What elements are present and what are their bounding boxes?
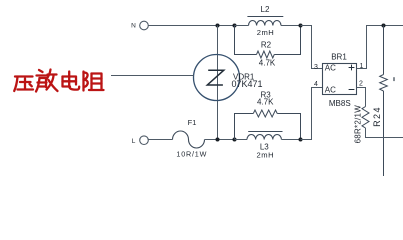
- svg-text:BR1: BR1: [331, 53, 347, 62]
- svg-text:2mH: 2mH: [257, 28, 275, 37]
- svg-text:R24: R24: [372, 106, 382, 127]
- svg-text:R2: R2: [261, 40, 272, 49]
- cropped label fragment at right edge: [393, 77, 395, 81]
- wire 68R resistor bottom to right edge: [366, 128, 403, 138]
- resistor 68R*2/1W (vertical): [362, 107, 369, 129]
- plus sign: [349, 65, 355, 71]
- node dot bottom-left of L3 section: [233, 138, 237, 142]
- wire from bottom rail to bridge pin 4: [301, 88, 323, 140]
- node dot top of varistor: [216, 24, 220, 28]
- minus sign: [349, 89, 355, 91]
- svg-text:2mH: 2mH: [257, 151, 275, 160]
- svg-text:68R*2/1W: 68R*2/1W: [354, 105, 363, 144]
- terminal N: [140, 21, 149, 30]
- wire L3 section right stub: [282, 139, 301, 141]
- fuse F1 (S-shaped double arc): [173, 131, 205, 148]
- svg-text:L2: L2: [261, 5, 270, 14]
- resistor R24 (vertical, right): [380, 26, 388, 177]
- wire L3 section left stub: [235, 139, 248, 141]
- svg-text:4.7K: 4.7K: [259, 59, 276, 68]
- svg-text:AC: AC: [325, 85, 336, 94]
- svg-text:2: 2: [359, 81, 363, 88]
- svg-text:10R/1W: 10R/1W: [176, 149, 207, 158]
- node dot bottom of varistor: [216, 138, 220, 142]
- inductor L3: [247, 132, 283, 140]
- node dot top-left of L2 section: [233, 24, 237, 28]
- wire L2 section left stub: [235, 25, 249, 27]
- 压: [15, 75, 33, 77]
- inductor L2: [247, 17, 283, 26]
- resistor R2 (parallel branch): [235, 26, 301, 59]
- 阻: [82, 72, 84, 91]
- wire from top rail to bridge pin 3: [301, 26, 323, 69]
- wire L2 section right stub: [281, 25, 301, 27]
- resistor R3 (parallel branch): [235, 110, 301, 140]
- varistor VDR1: [194, 55, 240, 101]
- 敏: [39, 70, 43, 72]
- wire top rail from N to L2 section: [148, 25, 234, 27]
- svg-text:4.7K: 4.7K: [257, 98, 274, 107]
- wire bridge pin 1 to top-right rail: [357, 26, 403, 69]
- callout text 压敏电阻 (red, hand-drawn strokes): [14, 70, 103, 92]
- svg-text:AC: AC: [325, 63, 336, 72]
- svg-text:N: N: [131, 22, 136, 29]
- wire bottom rail from L to fuse: [148, 139, 172, 141]
- wire fuse to L3 section: [205, 139, 235, 141]
- svg-text:F1: F1: [188, 118, 197, 127]
- svg-text:3: 3: [314, 64, 318, 71]
- node dot bottom-right of L3 section: [299, 138, 303, 142]
- node dot top of R24: [382, 24, 386, 28]
- svg-text:L: L: [132, 138, 136, 145]
- svg-text:07K471: 07K471: [232, 79, 263, 89]
- 电: [63, 77, 77, 85]
- bridge rectifier BR1 body: [323, 64, 357, 95]
- node dot top-right of L2 section: [299, 24, 303, 28]
- callout pointer line: [111, 75, 194, 77]
- wire varistor vertical (top rail to bottom rail): [217, 26, 219, 140]
- svg-text:MB8S: MB8S: [329, 99, 351, 108]
- wire bridge pin 2 down to 68R resistor: [357, 88, 366, 107]
- terminal L: [140, 136, 149, 145]
- svg-text:4: 4: [314, 81, 318, 88]
